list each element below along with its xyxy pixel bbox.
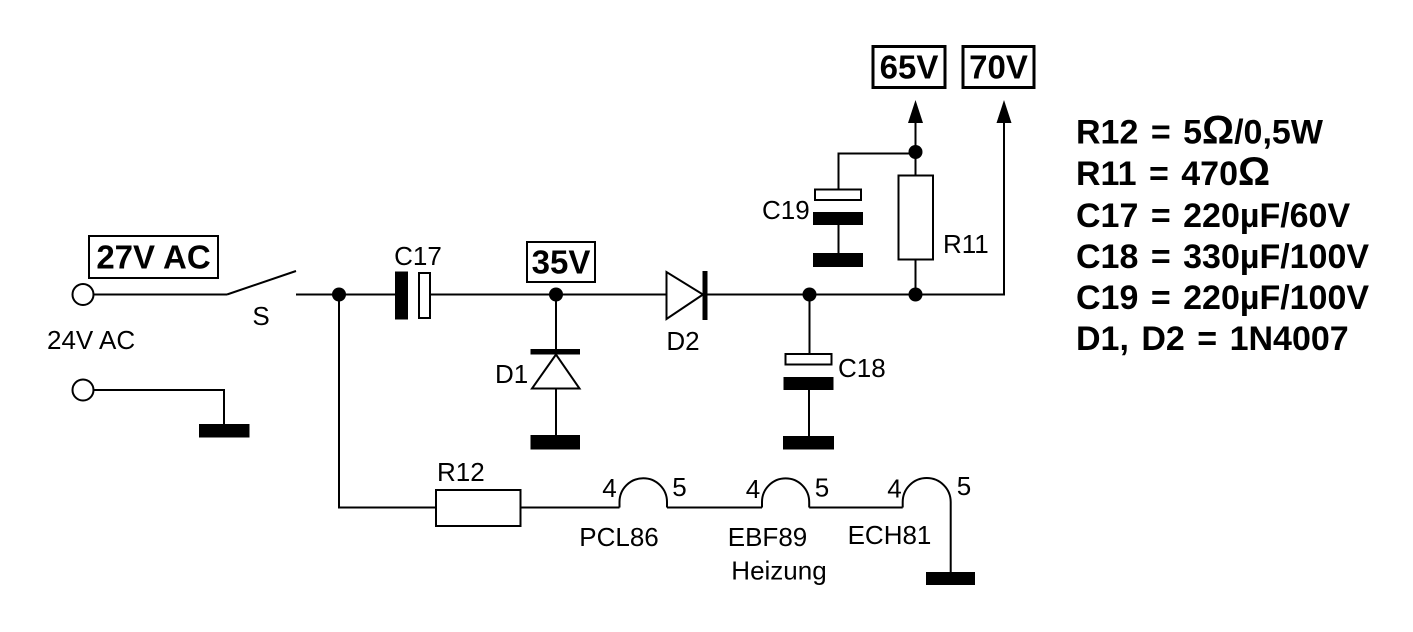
wire node E up to 65V arrow xyxy=(915,123,917,152)
svg-text:ECH81: ECH81 xyxy=(848,520,932,550)
diode D1 xyxy=(531,349,581,389)
svg-text:24V AC: 24V AC xyxy=(47,325,135,355)
ground bar (D1) xyxy=(531,435,581,450)
wire node C down to C18 xyxy=(809,295,811,354)
resistor R11 xyxy=(899,176,934,260)
svg-text:70V: 70V xyxy=(969,49,1028,86)
switch S blade xyxy=(227,271,296,295)
wire node D up to node E xyxy=(915,152,917,295)
svg-text:Heizung: Heizung xyxy=(731,556,826,586)
svg-text:C19 = 220µF/100V: C19 = 220µF/100V xyxy=(1076,279,1369,317)
wire D2 to node C xyxy=(708,294,810,296)
heater coil EBF89 xyxy=(762,478,809,507)
svg-text:R12: R12 xyxy=(437,457,485,487)
wire node A down and to R12 xyxy=(339,295,436,508)
ground bar (C18) xyxy=(783,436,834,450)
svg-text:65V: 65V xyxy=(880,49,939,86)
node E junction dot xyxy=(909,145,923,159)
wire node D to 70V riser corner xyxy=(916,123,1005,295)
wire R12 to heater PCL86 xyxy=(521,507,620,509)
capacitor C18 plate + (hollow) xyxy=(786,354,832,365)
terminal T2 (24V AC return) xyxy=(73,380,94,401)
wire switch to node A xyxy=(296,294,339,296)
terminal T1 (27V AC input) xyxy=(73,284,94,305)
diode D2 xyxy=(667,271,708,320)
wire C19 to ground xyxy=(838,225,840,253)
svg-text:R11 = 470Ω: R11 = 470Ω xyxy=(1076,150,1270,194)
svg-text:PCL86: PCL86 xyxy=(579,522,659,552)
heater coil PCL86 xyxy=(620,478,668,507)
heater coil ECH81 and wire to ground xyxy=(903,478,951,572)
capacitor C17 plate + (solid) xyxy=(395,272,408,320)
wire EBF89 to ECH81 xyxy=(809,507,903,509)
node B junction dot xyxy=(549,288,563,302)
capacitor C18 plate - (solid) xyxy=(784,377,834,390)
arrow to 65V xyxy=(908,100,923,123)
svg-text:S: S xyxy=(252,301,269,331)
svg-text:4: 4 xyxy=(746,474,760,504)
wire C18 to ground xyxy=(808,390,810,436)
svg-text:27V AC: 27V AC xyxy=(96,239,210,276)
wire node A to C17 xyxy=(339,294,395,296)
svg-text:C17 = 220µF/60V: C17 = 220µF/60V xyxy=(1076,197,1350,235)
wire T2 to ground xyxy=(94,390,224,424)
node label 65V xyxy=(873,47,945,88)
wire node E to C19 xyxy=(839,154,916,189)
svg-text:D2: D2 xyxy=(666,326,699,356)
wire C17 to node B xyxy=(431,294,556,296)
svg-text:C17: C17 xyxy=(394,241,442,271)
node A junction dot xyxy=(332,288,346,302)
node C junction dot xyxy=(803,288,817,302)
ground bar (heater) xyxy=(926,572,975,585)
wire node B to D2 xyxy=(556,294,667,296)
svg-text:5: 5 xyxy=(815,473,829,503)
svg-text:C18 = 330µF/100V: C18 = 330µF/100V xyxy=(1076,238,1369,276)
node label 27V AC xyxy=(89,236,218,278)
svg-text:5: 5 xyxy=(957,471,971,501)
svg-text:C18: C18 xyxy=(838,353,886,383)
wire PCL86 to EBF89 xyxy=(667,507,762,509)
svg-text:35V: 35V xyxy=(532,244,591,281)
wire T1 to switch hinge xyxy=(94,294,227,296)
svg-text:EBF89: EBF89 xyxy=(728,522,808,552)
capacitor C17 plate - (hollow) xyxy=(419,273,430,318)
svg-text:R12 = 5Ω/0,5W: R12 = 5Ω/0,5W xyxy=(1076,109,1324,153)
svg-text:4: 4 xyxy=(602,473,616,503)
resistor R12 xyxy=(436,490,521,526)
svg-text:C19: C19 xyxy=(762,195,810,225)
ground bar (C19) xyxy=(813,253,863,267)
svg-text:4: 4 xyxy=(887,474,901,504)
capacitor C19 plate - (solid) xyxy=(813,212,863,225)
ground bar (24V AC) xyxy=(199,424,250,438)
svg-text:D1: D1 xyxy=(495,359,528,389)
wire node B down to D1 xyxy=(555,295,557,350)
node label 35V xyxy=(527,242,595,282)
capacitor C19 plate + (hollow) xyxy=(815,190,861,201)
svg-text:R11: R11 xyxy=(943,229,989,259)
node label 70V xyxy=(963,47,1034,88)
wire D1 to ground xyxy=(555,389,557,436)
wire node C to node D xyxy=(810,294,916,296)
arrow to 70V xyxy=(997,100,1012,123)
svg-text:D1, D2 = 1N4007: D1, D2 = 1N4007 xyxy=(1076,320,1349,358)
svg-text:5: 5 xyxy=(672,472,686,502)
node D junction dot xyxy=(909,288,923,302)
